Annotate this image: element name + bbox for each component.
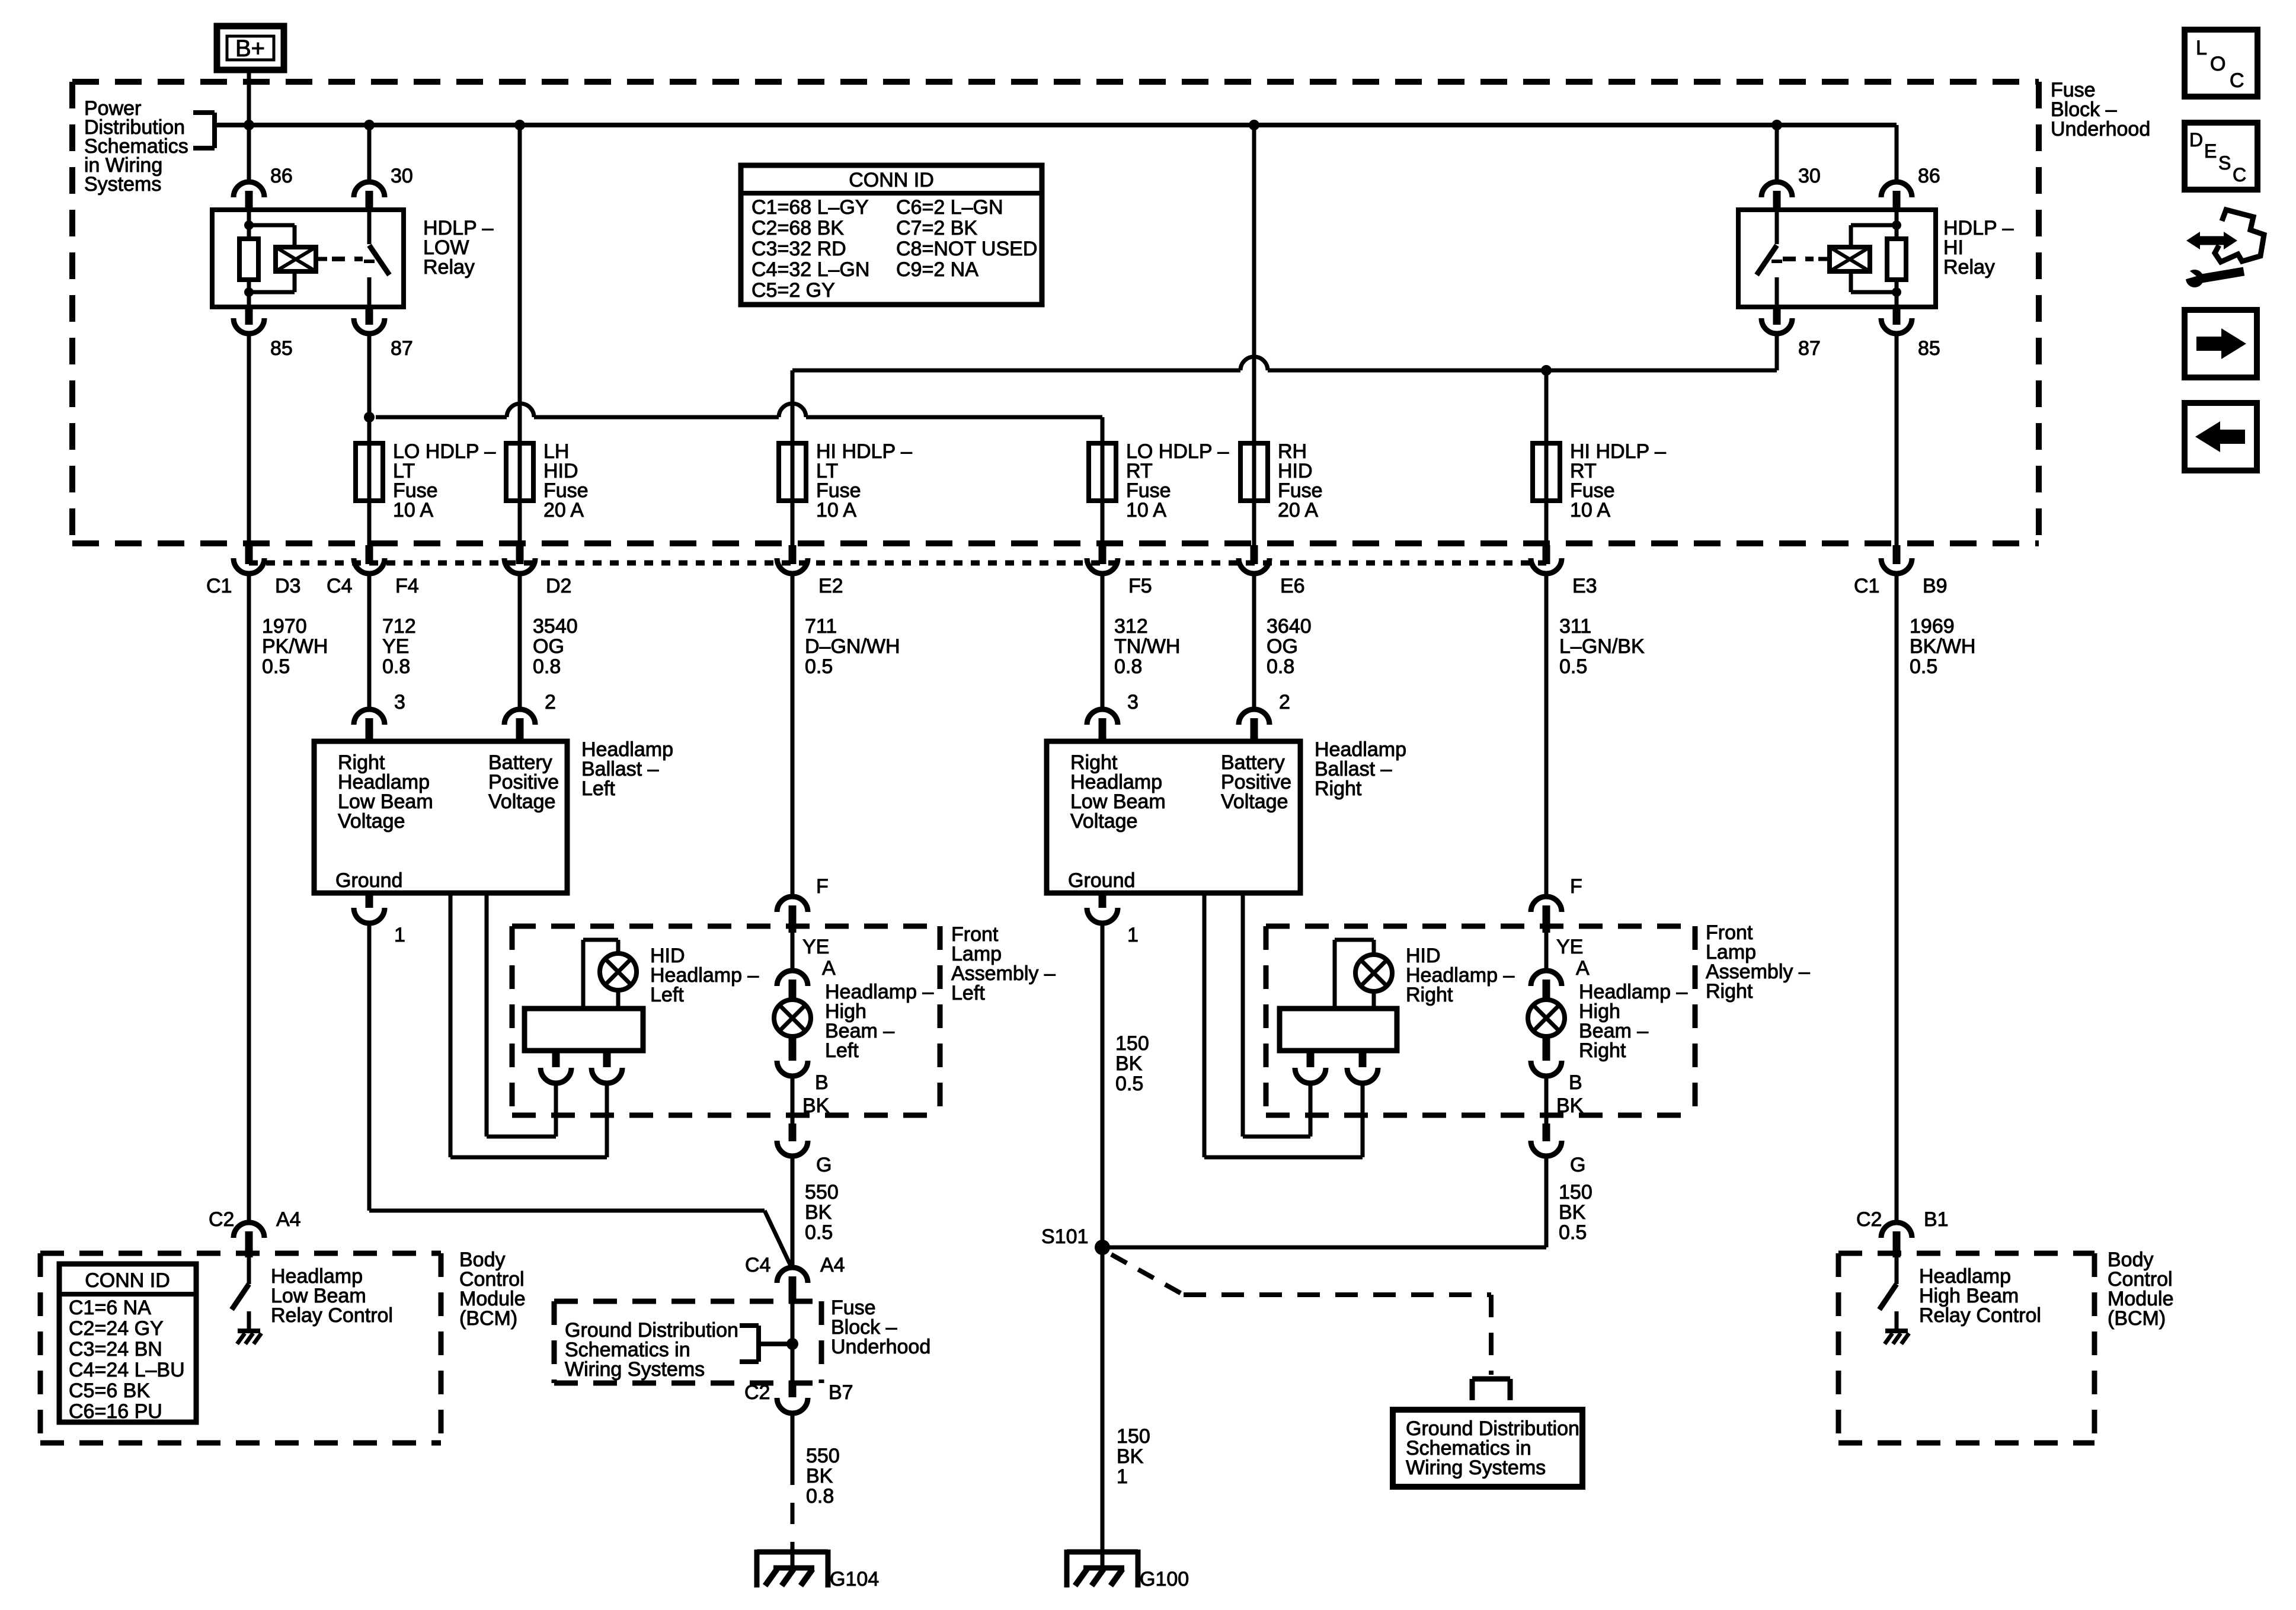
wire F to high beam right <box>1544 933 1549 971</box>
label Front Lamp Assembly - Left <box>951 923 1056 1004</box>
svg-text:20 A: 20 A <box>543 499 584 521</box>
svg-text:Voltage: Voltage <box>488 790 555 813</box>
wire label 711 D–GN/WH 0.5 <box>805 615 900 678</box>
wire left ballast to HID module pin b <box>450 893 607 1157</box>
junction node LO feed branch <box>364 412 375 422</box>
connector B9 at fuse block output x=3200 <box>1881 545 1912 574</box>
svg-text:F5: F5 <box>1128 575 1152 597</box>
svg-text:C3=24 BN: C3=24 BN <box>69 1338 162 1361</box>
svg-text:A: A <box>1576 957 1590 980</box>
wire label 550 BK 0.8 <box>806 1445 840 1507</box>
label HDLP-LOW Relay <box>423 217 494 279</box>
svg-text:Right: Right <box>1706 980 1753 1003</box>
label HID Headlamp - Left <box>650 945 759 1006</box>
svg-text:Right: Right <box>1406 984 1453 1006</box>
resistor inside HDLP-LOW relay <box>239 239 258 280</box>
label Headlamp High Beam - Right <box>1579 981 1687 1062</box>
body control module right dashed box <box>1838 1253 2094 1443</box>
connector HID module right pin b <box>1347 1051 1378 1083</box>
svg-text:30: 30 <box>1798 165 1821 187</box>
svg-text:BK: BK <box>805 1201 832 1224</box>
icon diagnostic arrows and wrench <box>2182 210 2264 287</box>
connector F right front lamp <box>1531 897 1562 933</box>
svg-text:BK: BK <box>1559 1201 1586 1224</box>
wires fuses down to fuse block connectors <box>369 501 1546 546</box>
wire G right down to S101 <box>1102 1157 1546 1247</box>
HID headlamp left bulb <box>600 953 637 990</box>
connector pin 86 of HDLP-HI relay <box>1881 182 1912 210</box>
label HID Headlamp - Right <box>1406 945 1514 1006</box>
label Fuse Block - Underhood (ground path) <box>831 1297 930 1358</box>
junction node bus / LOW relay pin 30 <box>364 120 375 130</box>
wire label 150 BK 0.5 (right ballast ground) <box>1115 1032 1149 1095</box>
splice S101 <box>1095 1240 1110 1255</box>
svg-text:C4=32 L–GN: C4=32 L–GN <box>752 258 869 281</box>
junction node ground distribution tap <box>786 1338 798 1350</box>
svg-text:B: B <box>815 1071 829 1094</box>
svg-text:C6=16 PU: C6=16 PU <box>69 1400 162 1423</box>
svg-text:YE: YE <box>1556 936 1583 958</box>
svg-text:2: 2 <box>545 691 556 713</box>
svg-text:0.8: 0.8 <box>533 655 561 678</box>
wire F to high beam left <box>791 933 795 971</box>
wire 1970 PK/WH down to BCM relay control <box>247 574 251 1222</box>
svg-text:C4=24 L–BU: C4=24 L–BU <box>69 1359 185 1381</box>
svg-text:TN/WH: TN/WH <box>1114 635 1180 658</box>
connector E3 at fuse block output x=2609 <box>1531 545 1562 574</box>
svg-text:BK: BK <box>802 1094 830 1117</box>
junction node HI feed / HI HDLP-RT fuse <box>1541 365 1552 376</box>
connector pin 85 of HDLP-HI relay <box>1881 307 1912 334</box>
svg-text:87: 87 <box>391 337 413 360</box>
svg-text:(BCM): (BCM) <box>459 1307 517 1330</box>
connector D3 at fuse block output x=420 <box>234 545 264 574</box>
svg-text:C7=2 BK: C7=2 BK <box>896 217 977 239</box>
switch contact inside HDLP-HI relay <box>1757 210 1782 307</box>
wire LO feed branch to LO HDLP-RT fuse with hops <box>376 404 1102 443</box>
svg-text:BK: BK <box>1556 1094 1584 1117</box>
fork symbol to ground distribution note <box>1472 1379 1510 1400</box>
note Power Distribution Schematics in Wiring Systems <box>84 97 188 196</box>
connector C2/B7 fuse block underhood <box>777 1381 808 1413</box>
svg-text:Relay: Relay <box>423 256 475 279</box>
svg-text:0.8: 0.8 <box>1267 655 1294 678</box>
svg-text:G100: G100 <box>1140 1568 1189 1590</box>
fuse LH HID 20A <box>506 443 533 501</box>
wire right ballast to HID module pin a <box>1243 893 1310 1137</box>
wire label 312 TN/WH 0.8 <box>1114 615 1180 678</box>
svg-text:F: F <box>816 875 829 898</box>
coil inside HDLP-HI relay <box>1818 247 1870 271</box>
coil inside HDLP-LOW relay <box>276 247 327 271</box>
HID igniter module left box <box>525 1009 643 1051</box>
wire label 550 BK 0.5 (left high beam ground) <box>805 1181 839 1244</box>
label Body Control Module (BCM) left <box>459 1249 526 1330</box>
wire 712 YE to left ballast pin 3 <box>367 574 372 709</box>
dashed actuator link HI relay <box>1783 257 1814 261</box>
svg-text:S: S <box>2218 152 2231 174</box>
svg-text:Underhood: Underhood <box>2051 118 2150 140</box>
svg-text:C6=2 L–GN: C6=2 L–GN <box>896 196 1003 219</box>
label HI HDLP-LT fuse <box>816 440 912 521</box>
wire label 3540 OG 0.8 <box>533 615 578 678</box>
wire 550 BK left ballast pin 1 to C4/A4 <box>369 924 792 1268</box>
fuse LO HDLP-LT 10A <box>356 443 383 501</box>
svg-text:Right: Right <box>1315 777 1362 800</box>
svg-text:Systems: Systems <box>84 173 161 196</box>
wire LOW relay 85 down to fuse block connector <box>247 334 251 546</box>
label RH HID fuse <box>1278 440 1323 521</box>
wire B+ down to bus <box>247 70 251 183</box>
icon box LOC <box>2185 30 2257 97</box>
connector C2/A4 body control module <box>234 1222 264 1257</box>
connector pin 2 right headlamp ballast <box>1239 709 1269 741</box>
svg-text:C3=32 RD: C3=32 RD <box>752 238 846 260</box>
svg-text:C8=NOT USED: C8=NOT USED <box>896 238 1037 260</box>
connector pin 1 left ballast ground <box>354 893 385 923</box>
junction node bus / RH HID fuse feed <box>1249 120 1259 130</box>
switch headlamp low beam relay control <box>232 1257 249 1331</box>
icon box DESC <box>2185 123 2257 190</box>
connector HID module left pin b <box>591 1051 622 1083</box>
dashed reference S101 to ground distribution note <box>1111 1254 1491 1375</box>
switch contact inside HDLP-LOW relay <box>364 210 389 307</box>
wires HID bulb right to module <box>1335 940 1374 1009</box>
svg-text:C1=68 L–GY: C1=68 L–GY <box>752 196 869 219</box>
svg-text:Left: Left <box>650 984 684 1006</box>
svg-text:3540: 3540 <box>533 615 578 638</box>
svg-text:Relay: Relay <box>1943 256 1995 279</box>
svg-text:Wiring Systems: Wiring Systems <box>1406 1457 1546 1479</box>
wire G left down to fuse block C4/A4 <box>791 1157 795 1268</box>
connector F4 at fuse block output x=623 <box>354 545 385 574</box>
svg-text:30: 30 <box>391 165 413 187</box>
connector pin 87 of HDLP-HI relay <box>1761 307 1792 334</box>
svg-text:Voltage: Voltage <box>1070 810 1137 833</box>
wire left ballast to HID module pin a <box>487 893 556 1137</box>
svg-text:G: G <box>816 1154 832 1176</box>
front lamp assembly right dashed box <box>1266 926 1695 1115</box>
relay HDLP-HI box <box>1738 210 1936 307</box>
svg-text:B9: B9 <box>1923 575 1948 597</box>
svg-text:311: 311 <box>1559 615 1591 638</box>
label Headlamp Low Beam Relay Control <box>271 1265 393 1327</box>
label Headlamp High Beam - Left <box>825 981 933 1062</box>
connector pin 30 of HDLP-LOW relay <box>354 182 385 210</box>
svg-text:Voltage: Voltage <box>1221 790 1288 813</box>
wire label 150 BK 0.5 (right high beam ground) <box>1559 1181 1593 1244</box>
svg-text:BK/WH: BK/WH <box>1910 635 1975 658</box>
bus wire B+ feed across top <box>215 123 1897 127</box>
svg-text:C2: C2 <box>209 1208 234 1231</box>
svg-text:A4: A4 <box>276 1208 301 1231</box>
svg-text:550: 550 <box>805 1181 839 1204</box>
svg-text:D–GN/WH: D–GN/WH <box>805 635 900 658</box>
svg-text:F: F <box>1570 875 1582 898</box>
connector pin 2 left headlamp ballast <box>504 709 535 741</box>
svg-text:86: 86 <box>1918 165 1940 187</box>
ground symbol inside BCM right <box>1885 1331 1909 1344</box>
label HDLP-HI Relay <box>1943 217 2014 279</box>
connector E6 at fuse block output x=2116 <box>1239 545 1269 574</box>
ballast left pin texts <box>335 751 559 892</box>
wire 3640 OG to right ballast pin 2 <box>1252 574 1256 709</box>
wire label 1970 PK/WH 0.5 <box>262 615 328 678</box>
svg-text:0.8: 0.8 <box>1114 655 1142 678</box>
svg-text:Ground: Ground <box>1068 869 1135 892</box>
junction node bus / HI relay pin 30 <box>1771 120 1782 130</box>
svg-text:Underhood: Underhood <box>831 1336 930 1358</box>
svg-text:F4: F4 <box>395 575 419 597</box>
wire high beam left to G connector <box>791 1077 795 1124</box>
svg-text:1970: 1970 <box>262 615 307 638</box>
svg-text:Left: Left <box>581 777 615 800</box>
svg-text:C9=2 NA: C9=2 NA <box>896 258 978 281</box>
wire label 150 BK 1 <box>1117 1425 1150 1488</box>
ground G100 <box>1067 1546 1138 1587</box>
svg-text:S101: S101 <box>1041 1225 1088 1248</box>
body control module left dashed box <box>40 1253 441 1443</box>
svg-text:Left: Left <box>825 1039 859 1062</box>
svg-text:YE: YE <box>382 635 409 658</box>
label Fuse Block - Underhood <box>2051 79 2150 140</box>
ground symbol inside BCM left <box>237 1331 261 1344</box>
wire 312 TN/WH to right ballast pin 3 <box>1101 574 1105 709</box>
icon box arrow left <box>2185 403 2257 470</box>
wire C4/A4 to C2/B7 inside fuse block <box>791 1304 795 1381</box>
fuse HI HDLP-RT 10A <box>1533 443 1560 501</box>
wire bus to HI relay pin 30 <box>1775 125 1779 183</box>
wire label 712 YE 0.8 <box>382 615 416 678</box>
svg-text:OG: OG <box>1267 635 1298 658</box>
fuse block underhood dashed box (ground path) <box>554 1301 821 1383</box>
svg-text:PK/WH: PK/WH <box>262 635 328 658</box>
connector G left front lamp <box>777 1124 808 1156</box>
wire 1969 BK/WH down to BCM relay control <box>1895 574 1899 1222</box>
svg-text:86: 86 <box>270 165 293 187</box>
svg-text:L–GN/BK: L–GN/BK <box>1559 635 1645 658</box>
bracket from note to bus <box>193 113 215 148</box>
svg-text:C2=24 GY: C2=24 GY <box>69 1317 164 1340</box>
svg-text:2: 2 <box>1279 691 1290 713</box>
svg-text:CONN ID: CONN ID <box>85 1269 170 1292</box>
connector pin 85 of HDLP-LOW relay <box>234 307 264 334</box>
connector HID module left pin a <box>541 1051 571 1083</box>
wire HI relay 85 down to fuse block connector <box>1895 334 1899 546</box>
svg-text:3640: 3640 <box>1267 615 1312 638</box>
relay HDLP-LOW coil branch wires <box>244 210 295 307</box>
wire label 3640 OG 0.8 <box>1267 615 1312 678</box>
svg-text:0.5: 0.5 <box>1559 655 1587 678</box>
icon box arrow right <box>2185 310 2257 377</box>
svg-text:C5=2 GY: C5=2 GY <box>752 279 835 302</box>
svg-text:1969: 1969 <box>1910 615 1955 638</box>
label Headlamp Ballast - Left <box>581 738 673 800</box>
svg-text:B+: B+ <box>235 36 265 62</box>
svg-text:0.5: 0.5 <box>262 655 290 678</box>
wire 711 D-GN/WH down to left high beam <box>791 574 795 896</box>
relay HDLP-LOW box <box>212 210 404 307</box>
HID igniter module right box <box>1280 1009 1397 1051</box>
svg-text:0.5: 0.5 <box>1115 1073 1143 1095</box>
connector G right front lamp <box>1531 1124 1562 1156</box>
svg-text:A4: A4 <box>820 1254 845 1276</box>
svg-text:C1: C1 <box>1854 575 1879 597</box>
svg-text:3: 3 <box>394 691 405 713</box>
wire HI relay 87 down and across to HI fuses with hop <box>792 334 1777 443</box>
HID headlamp right bulb <box>1355 955 1392 991</box>
connector A left high beam <box>777 971 808 1000</box>
svg-text:712: 712 <box>382 615 416 638</box>
label LO HDLP-RT fuse <box>1126 440 1229 521</box>
connector A right high beam <box>1531 971 1562 1000</box>
svg-text:C2: C2 <box>744 1381 770 1404</box>
label HI HDLP-RT fuse <box>1570 440 1666 521</box>
svg-text:Relay Control: Relay Control <box>1919 1304 2041 1327</box>
svg-text:O: O <box>2210 53 2225 75</box>
connector F5 at fuse block output x=1860 <box>1087 545 1118 574</box>
svg-text:Wiring Systems: Wiring Systems <box>565 1358 705 1381</box>
svg-text:CONN ID: CONN ID <box>849 169 934 191</box>
relay HDLP-HI coil branch wires <box>1851 210 1901 307</box>
svg-text:YE: YE <box>802 936 829 958</box>
headlamp ballast right box <box>1047 741 1300 893</box>
svg-text:3: 3 <box>1127 691 1139 713</box>
svg-text:Voltage: Voltage <box>338 810 405 833</box>
svg-text:C1=6 NA: C1=6 NA <box>69 1297 151 1319</box>
fuse block underhood dashed boundary box <box>72 82 2039 543</box>
connector pin 1 right ballast ground <box>1087 893 1118 923</box>
svg-text:BK: BK <box>806 1465 833 1487</box>
CONN ID table BCM <box>59 1264 196 1423</box>
bulb headlamp high beam left <box>774 1000 811 1036</box>
svg-text:D2: D2 <box>546 575 571 597</box>
svg-text:B: B <box>1569 1071 1582 1094</box>
svg-text:1: 1 <box>1117 1465 1128 1488</box>
connector pin 3 right headlamp ballast <box>1087 709 1118 741</box>
connector pin 3 left headlamp ballast <box>354 709 385 741</box>
svg-text:E6: E6 <box>1280 575 1305 597</box>
svg-text:0.8: 0.8 <box>382 655 410 678</box>
svg-text:87: 87 <box>1798 337 1821 360</box>
headlamp ballast left box <box>314 741 567 893</box>
bulb headlamp high beam right <box>1528 1000 1565 1036</box>
CONN ID table fuse block <box>741 165 1042 305</box>
svg-text:G104: G104 <box>830 1568 879 1590</box>
svg-text:OG: OG <box>533 635 564 658</box>
bracket note to wire junction <box>740 1326 788 1362</box>
note Ground Distribution Schematics in Wiring Systems (left) <box>565 1319 738 1381</box>
svg-text:150: 150 <box>1117 1425 1150 1448</box>
svg-text:1: 1 <box>1127 924 1139 946</box>
ballast right pin texts <box>1068 751 1291 892</box>
resistor inside HDLP-HI relay <box>1887 239 1906 280</box>
svg-text:C4: C4 <box>745 1254 770 1276</box>
svg-text:C: C <box>2233 164 2246 185</box>
connector pin 30 of HDLP-HI relay <box>1761 182 1792 210</box>
svg-text:0.5: 0.5 <box>1910 655 1937 678</box>
svg-text:711: 711 <box>805 615 837 638</box>
wire bus down to LH HID fuse <box>518 125 522 443</box>
svg-text:Left: Left <box>951 982 985 1004</box>
svg-text:Ground: Ground <box>335 869 402 892</box>
label Body Control Module (BCM) right <box>2108 1249 2174 1330</box>
svg-text:10 A: 10 A <box>816 499 856 521</box>
wire label 1969 BK/WH 0.5 <box>1910 615 1975 678</box>
connector C2/B1 body control module <box>1881 1222 1912 1257</box>
wire LOW relay 87 down to LO HDLP-LT fuse <box>367 334 372 443</box>
svg-text:L: L <box>2196 37 2207 59</box>
svg-text:C5=6 BK: C5=6 BK <box>69 1379 150 1402</box>
svg-text:(BCM): (BCM) <box>2108 1307 2166 1330</box>
svg-text:E: E <box>2204 140 2217 162</box>
svg-text:0.8: 0.8 <box>806 1485 834 1507</box>
connector pin 86 of HDLP-LOW relay <box>234 182 264 210</box>
connector C4/A4 fuse block underhood <box>777 1267 808 1304</box>
svg-text:C1: C1 <box>206 575 232 597</box>
svg-text:Right: Right <box>1579 1039 1626 1062</box>
svg-text:0.5: 0.5 <box>805 1221 833 1244</box>
svg-text:C4: C4 <box>327 575 352 597</box>
svg-text:10 A: 10 A <box>1126 499 1166 521</box>
svg-text:10 A: 10 A <box>393 499 433 521</box>
connector B right high beam <box>1531 1036 1562 1076</box>
svg-text:150: 150 <box>1115 1032 1149 1055</box>
svg-text:85: 85 <box>1918 337 1940 360</box>
svg-text:0.5: 0.5 <box>1559 1221 1587 1244</box>
junction node bus / LH HID fuse feed <box>514 120 525 130</box>
wire bus down to RH HID fuse <box>1252 125 1256 443</box>
svg-text:20 A: 20 A <box>1278 499 1318 521</box>
ground G104 <box>757 1546 828 1587</box>
wire 3540 OG to left ballast pin 2 <box>518 574 522 709</box>
wires HID bulb left to module <box>583 940 618 1009</box>
svg-text:G: G <box>1570 1154 1585 1176</box>
wire high beam right to G connector <box>1544 1077 1549 1124</box>
fuse LO HDLP-RT 10A <box>1089 443 1116 501</box>
connector F left front lamp <box>777 897 808 933</box>
note box Ground Distribution Schematics in Wiring Systems (right) <box>1393 1410 1582 1487</box>
B+ battery positive voltage terminal <box>217 26 284 70</box>
fuse HI HDLP-LT 10A <box>779 443 806 501</box>
svg-text:C: C <box>2230 69 2244 92</box>
svg-text:C2: C2 <box>1856 1208 1882 1231</box>
svg-text:0.5: 0.5 <box>805 655 833 678</box>
svg-text:BK: BK <box>1115 1052 1143 1075</box>
front lamp assembly left dashed box <box>512 926 940 1115</box>
svg-text:D: D <box>2189 129 2203 151</box>
svg-text:BK: BK <box>1117 1445 1144 1468</box>
wire right ballast pin 1 down through S101 to G100 <box>1101 924 1105 1564</box>
svg-text:312: 312 <box>1114 615 1148 638</box>
wire label 311 L–GN/BK 0.5 <box>1559 615 1645 678</box>
svg-text:A: A <box>822 957 836 980</box>
svg-text:D3: D3 <box>275 575 300 597</box>
switch headlamp high beam relay control <box>1879 1257 1897 1331</box>
label LO HDLP-LT fuse <box>393 440 495 521</box>
svg-text:550: 550 <box>806 1445 840 1467</box>
connector B left high beam <box>777 1036 808 1076</box>
connector HID module right pin a <box>1295 1051 1326 1083</box>
svg-text:150: 150 <box>1559 1181 1593 1204</box>
svg-text:85: 85 <box>270 337 293 360</box>
junction node bus / B+ <box>244 120 254 130</box>
svg-text:Relay Control: Relay Control <box>271 1304 393 1327</box>
label Headlamp Ballast - Right <box>1315 738 1406 800</box>
connector D2 at fuse block output x=877 <box>504 545 535 574</box>
wire right ballast to HID module pin b <box>1204 893 1363 1157</box>
wire C2/B7 to ground G104 partially dashed <box>791 1414 795 1564</box>
